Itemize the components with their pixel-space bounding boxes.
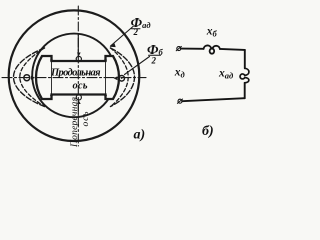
arrow on d-axis right (points left) xyxy=(114,76,118,80)
bottom wire xyxy=(182,98,245,101)
rotor body fill xyxy=(36,56,119,99)
stator bore circle xyxy=(32,34,116,118)
arrow on q-axis top (points down) xyxy=(77,53,81,57)
top wire right segment xyxy=(220,49,245,50)
flux loop right (dashed) xyxy=(111,48,135,107)
arrow on q-axis bottom (points up) xyxy=(77,101,81,105)
top wire left segment xyxy=(181,48,204,50)
svg-text:б): б) xyxy=(202,124,214,139)
rotor spool outline xyxy=(36,56,119,99)
circuit b) xyxy=(176,45,249,103)
q-axis solid segment top xyxy=(77,34,79,56)
svg-text:xб: xб xyxy=(206,26,218,39)
horizontal axis (d-axis, Продольная ось) xyxy=(2,77,146,79)
flux loop left (dashed) xyxy=(14,48,45,107)
svg-text:2: 2 xyxy=(133,27,139,37)
stator outer circle xyxy=(9,10,140,141)
svg-text:xд: xд xyxy=(174,67,186,80)
leader line Phi_b/2 xyxy=(125,57,150,75)
inductor x_b (top) xyxy=(204,45,220,53)
terminal bottom-left xyxy=(178,99,182,103)
svg-text:ось: ось xyxy=(73,81,88,92)
flange arrow line right xyxy=(105,60,107,97)
right vertical wire upper xyxy=(244,50,246,68)
vertical axis (q-axis, Поперечная ось) xyxy=(77,6,79,146)
svg-text:ось: ось xyxy=(81,111,91,127)
svg-text:Поперечная: Поперечная xyxy=(70,97,80,148)
q-axis solid segment bottom xyxy=(77,100,79,113)
flange arrow line left xyxy=(51,60,53,97)
conductor circle left (on d-axis) xyxy=(24,75,30,81)
small circle top (q-axis marker) xyxy=(76,56,81,61)
arrow on d-axis left (points right) xyxy=(31,76,35,80)
inductor x_ad (right, vertical) xyxy=(240,68,249,83)
conductor circle right (on d-axis) xyxy=(119,76,125,82)
svg-text:а): а) xyxy=(134,128,146,143)
svg-text:Продольная: Продольная xyxy=(50,68,101,79)
svg-text:xад: xад xyxy=(218,68,234,81)
svg-text:2: 2 xyxy=(151,56,157,66)
right vertical wire lower xyxy=(244,83,246,98)
terminal top-left xyxy=(177,47,181,51)
small circle bottom (q-axis marker) xyxy=(76,95,81,100)
leader line Phi_ad/2 xyxy=(111,27,134,47)
